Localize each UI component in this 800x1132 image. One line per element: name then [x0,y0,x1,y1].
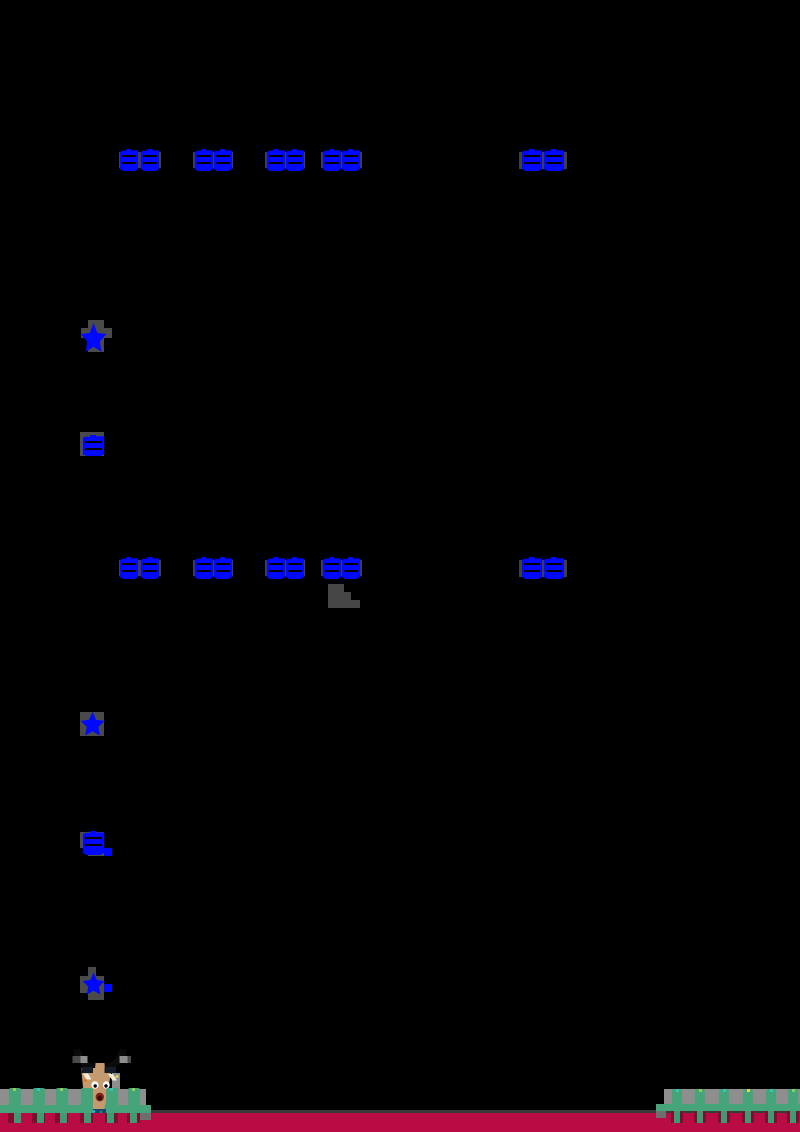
row 1 word group 3 gray highlight [265,152,305,168]
row 2 word group 5 blue text [522,557,542,579]
sparkle yellow right ear [116,1075,119,1078]
collar [91,1109,106,1115]
right fence post bottoms (narrow) [674,1111,680,1123]
gray strip above red bar [0,1110,800,1113]
bullet 2 blue character [83,435,104,456]
right fence posts (upper wide part) [672,1089,682,1111]
row 2 word group 2 gray highlight [193,560,233,576]
right fence gray backdrop [664,1089,800,1106]
antler gray patch right dark [128,1056,132,1063]
row 2 word group 3 gray highlight [265,560,305,576]
face top sliver between antlers [95,1063,105,1069]
eye white left [91,1081,98,1089]
left fence rail [0,1105,151,1113]
gray patch below left rail end [140,1113,151,1120]
bullet 3 gray highlight [80,712,104,736]
sparkle dots on left fence post tops [13,1088,16,1091]
row 1 word group 4 gray highlight [321,152,362,168]
row 1 word group 1 blue text [120,149,138,171]
row 2 word group 4 blue text [323,557,341,579]
left fence post bottoms (narrow) [14,1113,21,1123]
bullet 4 gray highlight [80,832,104,848]
bullet 4 blue comma square [104,848,112,856]
right fence rail [656,1104,800,1111]
bullet 5 blue square [104,984,112,992]
row 2 word group 3 blue text [267,557,285,579]
row 1 word group 1 gray highlight [119,152,161,168]
collar sparkle [93,1110,96,1113]
row 1 word group 2 gray highlight [193,152,233,168]
pupil right [104,1084,107,1087]
left fence post bottom shadows (maroon) [8,1113,21,1123]
eyebrow navy right [105,1067,117,1073]
bullet 4 blue character [83,831,104,855]
ear white left [83,1074,92,1080]
left fence posts (upper wide part) [9,1088,21,1113]
right fence post bottom shadows (maroon) [671,1111,683,1123]
antler gray patch left dark [73,1056,81,1063]
row 1 word group 3 blue text [267,149,285,171]
mouth outer [96,1093,104,1102]
bullet 3 blue star [80,710,106,738]
left fence gray backdrop [0,1089,146,1106]
antler gray patch right light [120,1056,128,1063]
bullet 2 gray highlight [80,432,104,456]
pupil left [94,1084,97,1087]
eye white right [103,1081,110,1089]
sparkle teal left cheek [81,1090,84,1093]
row 2 word group 1 blue text [120,557,138,579]
row 1 word group 4 blue text [323,149,341,171]
row 1 word group 5 blue text [522,149,542,171]
bullet 5 gray cross [88,967,96,976]
face [81,1068,112,1110]
row 2 word group 4 gray highlight [321,560,362,576]
antler left [73,1049,95,1069]
gray patch right of face [112,1073,120,1089]
ear white right [108,1074,117,1081]
sparkle dots on right fence post tops [676,1089,679,1092]
bullet 1 blue star [80,321,108,355]
row 2 word group 5 gray highlight [519,560,567,577]
eyebrow navy left [82,1067,94,1073]
sparkle orange left ear [84,1079,87,1082]
sparkle red right cheek [115,1088,119,1092]
gray cursor steps under row 2 group 4 [328,584,344,592]
row 2 word group 1 gray highlight [119,560,161,576]
gray patch below right rail start [656,1111,666,1118]
antler right [105,1049,127,1069]
red bar [0,1113,800,1132]
row 1 word group 2 blue text [195,149,213,171]
row 2 word group 2 blue text [195,557,213,579]
row 1 word group 5 gray highlight [519,152,567,169]
bullet 1 gray cross [88,320,104,352]
mouth inner [98,1096,102,1101]
antler gray patch left light [81,1056,88,1063]
bullet 5 blue star [82,971,106,997]
reindeer [60,1040,140,1132]
